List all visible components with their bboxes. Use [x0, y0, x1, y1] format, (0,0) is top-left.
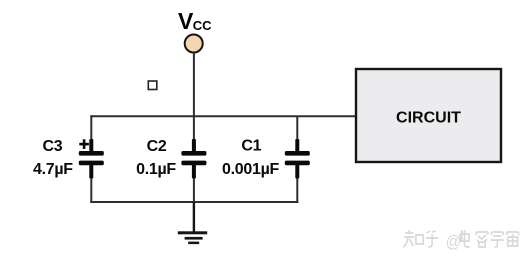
wire Vcc node to top bus — [193, 53, 195, 117]
svg-text:V: V — [178, 8, 194, 34]
wire ground stem — [193, 202, 195, 233]
svg-text:C2: C2 — [147, 138, 167, 155]
value label 0.001µF — [222, 161, 279, 178]
wire C1 branch upper lead — [296, 116, 298, 152]
wire C3 branch lower lead — [90, 164, 92, 203]
svg-text:0.001µF: 0.001µF — [222, 161, 279, 178]
宇 — [491, 232, 505, 247]
宙 — [507, 232, 519, 246]
power terminal Vcc — [185, 35, 203, 53]
watermark 知乎 @电容宇宙 — [403, 230, 518, 251]
wire C3 branch upper lead — [90, 115, 92, 152]
容 — [476, 232, 488, 247]
C3 polarity + sign — [79, 139, 89, 149]
circuit block "CIRCUIT" — [356, 69, 501, 162]
svg-text:@: @ — [446, 232, 462, 251]
label Vcc — [178, 8, 212, 34]
知 — [403, 230, 423, 247]
乎 — [426, 231, 439, 247]
wire C1 branch lower lead — [296, 164, 298, 203]
电 — [460, 230, 470, 247]
svg-text:4.7µF: 4.7µF — [33, 161, 73, 178]
wire C2 branch lower lead — [193, 164, 195, 203]
svg-text:C3: C3 — [42, 138, 62, 155]
capacitor C3 — [79, 139, 104, 179]
svg-text:CC: CC — [193, 18, 212, 33]
label C3 — [42, 138, 62, 155]
capacitor C2 — [181, 139, 206, 179]
svg-text:CIRCUIT: CIRCUIT — [396, 110, 461, 127]
wire bottom bus — [90, 201, 298, 203]
svg-text:0.1µF: 0.1µF — [136, 161, 176, 178]
node marker (small square) — [148, 81, 157, 90]
label C1 — [241, 138, 261, 155]
value label 4.7µF — [33, 161, 73, 178]
wire C2 branch upper lead — [193, 116, 195, 152]
svg-text:C1: C1 — [241, 138, 261, 155]
@ — [446, 232, 462, 251]
ground — [178, 231, 207, 244]
wire top bus — [90, 115, 356, 117]
capacitor C1 — [285, 139, 310, 179]
label C2 — [147, 138, 167, 155]
value label 0.1µF — [136, 161, 176, 178]
